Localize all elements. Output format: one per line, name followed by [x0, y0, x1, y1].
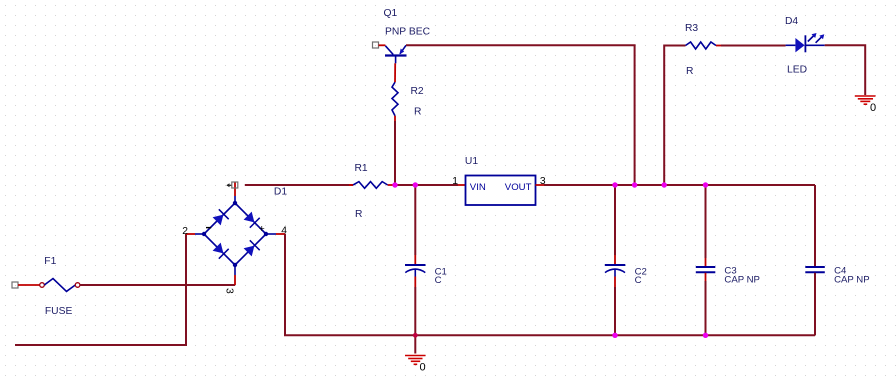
svg-text:+: + [259, 224, 265, 235]
svg-text:R: R [686, 66, 693, 77]
svg-text:0: 0 [420, 362, 426, 374]
svg-text:VIN: VIN [470, 182, 486, 193]
wire LED to ground [825, 45, 866, 95]
capacitor C1 [405, 255, 426, 287]
junction node C3 top [703, 182, 708, 187]
bridge D1 pin 2 lead [186, 233, 195, 235]
label minus [206, 227, 211, 229]
capacitor C2 wire bottom [614, 287, 616, 335]
svg-text:PNP BEC: PNP BEC [385, 27, 431, 38]
capacitor C1 branch wire top [414, 185, 416, 255]
bridge port arrow [226, 183, 232, 187]
ground symbol 0 at C1 [405, 356, 426, 365]
capacitor C4 wire bottom [814, 273, 816, 336]
wire R2 to junction [394, 121, 396, 185]
resistor R2 [392, 63, 398, 121]
capacitor C2 branch wire top [614, 185, 616, 255]
bridge diode bottom-right [244, 240, 260, 256]
bridge diode top-left [213, 209, 229, 225]
svg-text:F1: F1 [44, 256, 56, 267]
wire R1 to U1 [395, 184, 458, 186]
capacitor C1 wire to ground [414, 287, 416, 354]
wire fuse to bridge pin 3 [80, 284, 235, 286]
svg-text:CAP NP: CAP NP [724, 274, 760, 285]
regulator U1 box [466, 176, 536, 206]
capacitor C3 wire bottom [705, 281, 707, 335]
wire input rail to R1 [245, 184, 353, 186]
junction node R2 branch [392, 182, 397, 187]
bridge D1 pin 3 lead [234, 265, 236, 275]
regulator U1 pin1 lead [458, 184, 465, 186]
svg-text:C: C [435, 275, 442, 286]
svg-text:0: 0 [870, 102, 876, 114]
svg-text:C: C [635, 275, 642, 286]
junction node C2 top [612, 182, 617, 187]
LED D4 [786, 33, 825, 52]
fuse F1 pin lead left [18, 284, 40, 286]
resistor R1 [349, 182, 395, 189]
wire Q1 emitter to output rail [406, 45, 635, 185]
capacitor C3 branch wire top [705, 185, 707, 258]
bridge D1 pin 1 lead [234, 183, 236, 197]
wire R3 to LED [721, 45, 786, 47]
svg-text:U1: U1 [465, 156, 478, 167]
wire return path left (bridge pin 2 down and left) [15, 234, 186, 345]
svg-text:LED: LED [787, 65, 807, 76]
svg-text:2: 2 [182, 226, 188, 237]
bridge diode bottom-left [213, 243, 229, 259]
regulator U1 pin3 lead [536, 184, 545, 186]
wire bridge pin4 to ground rail [285, 234, 815, 335]
transistor Q1 port square [373, 42, 379, 48]
svg-text:R3: R3 [685, 23, 698, 34]
svg-text:3: 3 [224, 288, 235, 294]
transistor Q1 [385, 45, 407, 63]
svg-text:1: 1 [452, 176, 458, 187]
bridge diode top-right [244, 212, 260, 228]
svg-text:R1: R1 [355, 163, 368, 174]
svg-text:Q1: Q1 [384, 8, 398, 19]
fuse F1 port square [12, 282, 18, 288]
bridge node dots [202, 201, 268, 267]
capacitor C3 [696, 258, 716, 281]
svg-text:VOUT: VOUT [505, 182, 532, 193]
junction node Q1 emitter wire [632, 182, 637, 187]
svg-text:R2: R2 [411, 86, 424, 97]
junction node R3 branch [662, 182, 667, 187]
svg-text:D4: D4 [785, 16, 798, 27]
wire output rail [544, 184, 815, 186]
bridge rectifier D1 body [204, 203, 266, 265]
bridge port square [232, 182, 238, 188]
transistor Q1 base pin lead [379, 44, 386, 46]
junction node C1 branch [413, 182, 418, 187]
fuse F1 [40, 279, 80, 292]
wire R3 branch riser [664, 46, 685, 186]
svg-text:D1: D1 [274, 186, 287, 197]
svg-text:R: R [355, 209, 362, 220]
junction node C2 ground [612, 333, 617, 338]
capacitor C4 branch wire top [814, 185, 816, 267]
ground symbol 0 at LED [855, 96, 876, 104]
svg-text:R: R [414, 106, 421, 117]
junction node C1 ground crossing [413, 333, 418, 338]
junction node C3 ground [703, 333, 708, 338]
svg-text:FUSE: FUSE [45, 306, 73, 317]
resistor R3 [686, 42, 722, 49]
bridge D1 pin 4 lead [266, 233, 276, 235]
svg-text:CAP NP: CAP NP [834, 274, 870, 285]
capacitor C4 [805, 267, 825, 272]
capacitor C2 [605, 255, 626, 287]
